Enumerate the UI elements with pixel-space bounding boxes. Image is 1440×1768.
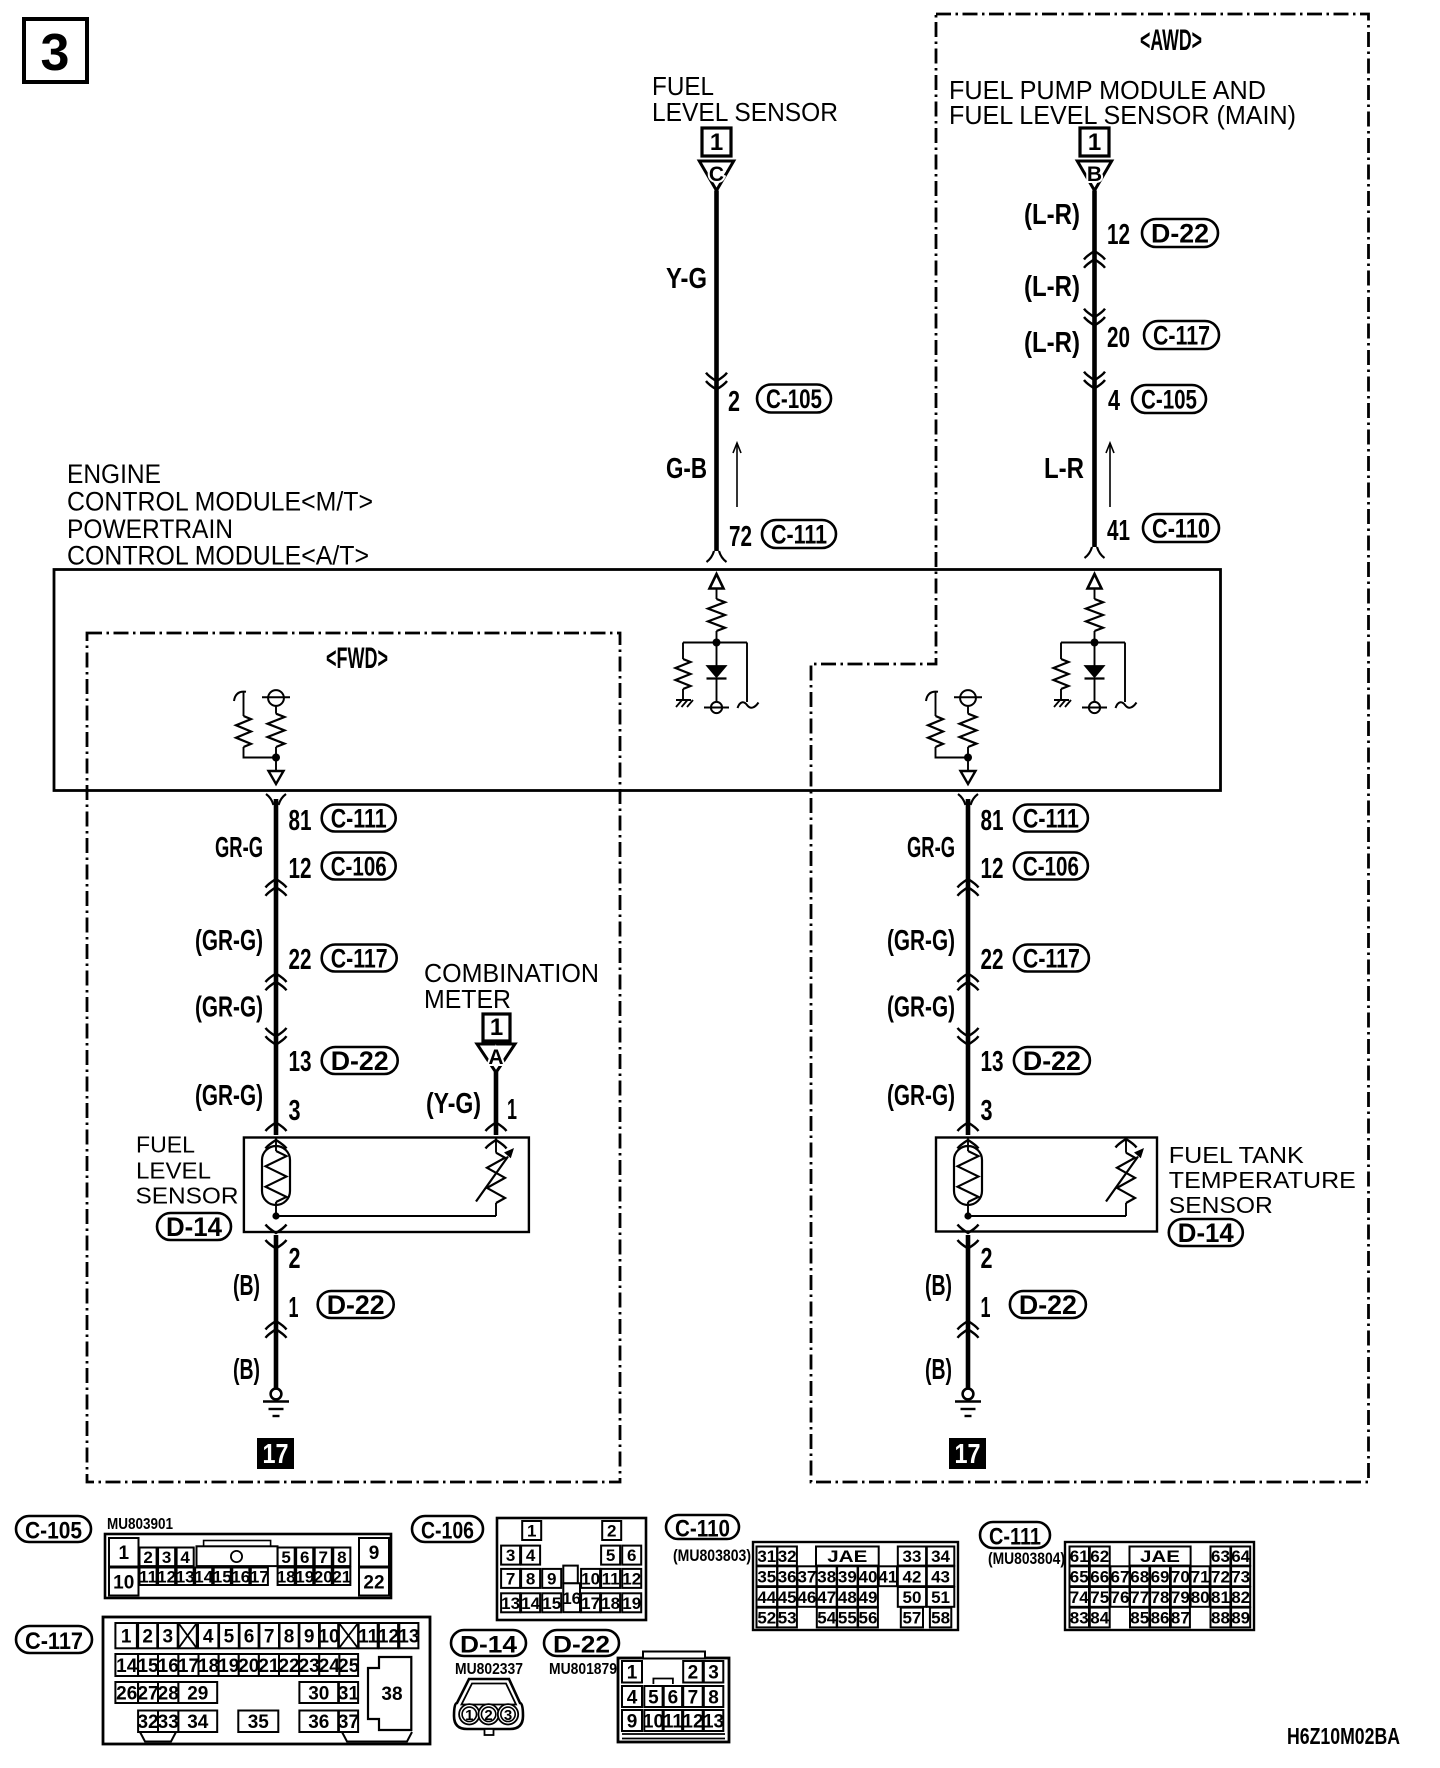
svg-text:3: 3 [708, 1663, 719, 1684]
svg-text:14: 14 [116, 1656, 138, 1677]
svg-text:52: 52 [757, 1609, 776, 1628]
svg-text:(MU803804): (MU803804) [988, 1549, 1065, 1568]
pin 12 cell [158, 1568, 175, 1586]
pull-up resistor [708, 599, 725, 631]
pin 8 cell [704, 1686, 724, 1707]
pin 9 cell [299, 1623, 319, 1648]
svg-text:D-22: D-22 [1023, 1046, 1081, 1076]
svg-text:3: 3 [162, 1548, 171, 1567]
svg-text:FUEL LEVEL SENSOR (MAIN): FUEL LEVEL SENSOR (MAIN) [949, 100, 1296, 130]
svg-text:11: 11 [602, 1570, 620, 1589]
pin 38 cell [817, 1566, 837, 1586]
pin 5 cell [644, 1686, 662, 1707]
svg-text:20: 20 [314, 1567, 333, 1586]
svg-text:9: 9 [547, 1570, 556, 1589]
connector C-105 pinout [16, 1516, 91, 1542]
pin 19 cell [219, 1654, 239, 1676]
svg-text:5: 5 [224, 1626, 235, 1647]
pin 19 cell [296, 1568, 313, 1586]
wire [967, 706, 969, 714]
variable resistor [1117, 1153, 1135, 1203]
pin 2 cell [140, 1548, 157, 1567]
svg-text:D-14: D-14 [1178, 1218, 1234, 1248]
connector pass chevrons [266, 1321, 287, 1330]
pin 21 cell [259, 1654, 279, 1676]
resistor to ground [676, 659, 691, 689]
svg-text:31: 31 [338, 1683, 360, 1704]
svg-text:7: 7 [264, 1626, 275, 1647]
pin 14 cell [521, 1593, 540, 1612]
connector pass chevrons up [1084, 251, 1105, 260]
pin 49 cell [858, 1587, 878, 1607]
connector pass chevrons down [1084, 380, 1105, 389]
svg-text:82: 82 [1231, 1588, 1250, 1607]
pin 67 cell [1110, 1566, 1129, 1586]
pin 10 cell [581, 1569, 600, 1588]
pin 34 cell [927, 1547, 955, 1566]
wire [275, 706, 277, 714]
svg-text:46: 46 [797, 1588, 816, 1607]
svg-text:D-14: D-14 [460, 1631, 518, 1658]
svg-text:1: 1 [121, 1626, 132, 1647]
pin 33 cell [898, 1547, 926, 1566]
pin 50 cell [898, 1587, 926, 1607]
svg-text:12: 12 [1107, 219, 1130, 251]
svg-text:19: 19 [622, 1594, 641, 1613]
pin 65 cell [1070, 1566, 1090, 1586]
svg-text:32: 32 [778, 1547, 797, 1566]
pin 7 cell [315, 1548, 332, 1567]
pin 42 cell [898, 1566, 926, 1586]
resistor [236, 716, 251, 747]
pin 18 cell [601, 1593, 620, 1612]
pin 11 cell [601, 1569, 620, 1588]
svg-text:GR-G: GR-G [215, 832, 263, 864]
pin 84 cell [1090, 1608, 1110, 1628]
svg-text:12: 12 [378, 1626, 399, 1647]
pin 10 cell [644, 1710, 662, 1731]
pin 2 cell [602, 1521, 621, 1540]
svg-text:40: 40 [859, 1567, 878, 1586]
AWD region dash-dot boundary [811, 14, 1369, 1482]
svg-text:66: 66 [1090, 1567, 1109, 1586]
pin 2 cell [138, 1623, 157, 1648]
wire [1060, 643, 1062, 660]
coil hook [926, 692, 938, 701]
pin 29 cell [178, 1682, 217, 1703]
connector ref C-105 [1132, 385, 1206, 413]
contact circle [711, 702, 722, 713]
pin 46 cell [797, 1587, 816, 1607]
wire [1094, 631, 1096, 643]
svg-text:C: C [709, 163, 724, 186]
connector ref C-117 [1144, 321, 1219, 349]
pin 33 cell [158, 1711, 178, 1733]
svg-text:LEVEL SENSOR: LEVEL SENSOR [652, 97, 838, 127]
svg-text:13: 13 [981, 1046, 1004, 1078]
connector 1 box (fuel pump module) [1080, 128, 1109, 156]
svg-text:2: 2 [289, 1243, 301, 1275]
svg-text:8: 8 [526, 1570, 535, 1589]
pin 24 cell [319, 1654, 339, 1676]
svg-text:10: 10 [113, 1572, 134, 1593]
ground ref 17 [949, 1438, 986, 1469]
svg-text:84: 84 [1090, 1609, 1109, 1628]
svg-text:22: 22 [278, 1656, 299, 1677]
svg-text:6: 6 [668, 1687, 679, 1708]
connector D-14 pinout [451, 1630, 526, 1656]
svg-text:LEVEL: LEVEL [136, 1158, 211, 1184]
svg-text:1: 1 [627, 1663, 638, 1684]
connector triangle C [699, 161, 733, 191]
wire [746, 643, 748, 703]
wire [1060, 689, 1062, 700]
svg-text:C-117: C-117 [1153, 320, 1210, 350]
svg-text:(GR-G): (GR-G) [195, 992, 263, 1024]
connector ref D-22 [322, 1047, 398, 1074]
svg-text:30: 30 [308, 1683, 329, 1704]
pin 32 cell [777, 1547, 797, 1566]
svg-text:25: 25 [338, 1656, 360, 1677]
svg-text:3: 3 [289, 1095, 301, 1127]
pin 28 cell [158, 1682, 178, 1703]
svg-text:7: 7 [319, 1548, 328, 1567]
pin 30 cell [299, 1682, 338, 1703]
svg-text:38: 38 [381, 1684, 402, 1705]
wire flare below ECM [958, 794, 966, 805]
pin 1 cell [115, 1623, 136, 1648]
variable resistor [487, 1153, 505, 1203]
svg-text:33: 33 [902, 1547, 921, 1566]
svg-text:MU801879: MU801879 [549, 1661, 617, 1678]
svg-text:37: 37 [797, 1567, 816, 1586]
svg-text:42: 42 [902, 1567, 921, 1586]
svg-text:41: 41 [1107, 515, 1130, 547]
svg-text:6: 6 [244, 1626, 255, 1647]
svg-text:1: 1 [465, 1707, 473, 1724]
svg-text:61: 61 [1070, 1547, 1089, 1566]
svg-text:(L-R): (L-R) [1024, 327, 1080, 359]
svg-text:(GR-G): (GR-G) [195, 925, 263, 957]
wire [275, 747, 277, 771]
wire (Y-G) to combination meter pin 1 [494, 1072, 499, 1135]
pin 43 cell [927, 1566, 955, 1586]
svg-text:57: 57 [902, 1609, 921, 1628]
pin 53 cell [777, 1608, 797, 1628]
svg-text:81: 81 [289, 805, 312, 837]
svg-text:3: 3 [41, 24, 70, 82]
pin 35 cell [238, 1711, 278, 1733]
pin 3 cell [501, 1546, 520, 1565]
svg-text:1: 1 [527, 1522, 536, 1541]
connector ref C-111 [1014, 805, 1088, 832]
svg-text:12: 12 [981, 853, 1004, 885]
chassis ground [1054, 699, 1069, 701]
svg-text:11: 11 [358, 1626, 379, 1647]
junction node [964, 754, 972, 762]
svg-text:16: 16 [562, 1589, 581, 1608]
svg-text:12: 12 [289, 853, 312, 885]
pin 18 cell [278, 1568, 295, 1586]
wire GR-G (ECM to sensor) [966, 799, 971, 1135]
pin 13 cell [704, 1710, 724, 1731]
svg-text:9: 9 [369, 1543, 380, 1564]
svg-text:27: 27 [137, 1683, 158, 1704]
wire [1094, 679, 1096, 702]
svg-text:JAE: JAE [827, 1547, 867, 1566]
svg-text:(GR-G): (GR-G) [887, 992, 955, 1024]
svg-text:TEMPERATURE: TEMPERATURE [1169, 1167, 1356, 1193]
pin 13 cell [399, 1623, 418, 1648]
connector pass C-105 pin2 chevrons [706, 381, 727, 390]
pin 17 cell [581, 1593, 600, 1612]
pin 40 cell [858, 1566, 878, 1586]
ground wire (B) [274, 1235, 279, 1390]
pin 58 cell [930, 1608, 951, 1628]
pin 12 cell [622, 1569, 641, 1588]
svg-text:D-22: D-22 [553, 1631, 610, 1658]
svg-text:(L-R): (L-R) [1024, 271, 1080, 303]
connector C-111 pinout [980, 1522, 1050, 1548]
connector ref C-105 [757, 385, 831, 413]
svg-text:(L-R): (L-R) [1024, 199, 1080, 231]
svg-text:C-106: C-106 [331, 851, 387, 881]
svg-text:4: 4 [203, 1626, 214, 1647]
svg-text:22: 22 [981, 944, 1004, 976]
svg-text:51: 51 [931, 1588, 950, 1607]
svg-text:<AWD>: <AWD> [1140, 24, 1202, 57]
pin 35 cell [757, 1566, 778, 1586]
svg-text:C-117: C-117 [331, 943, 388, 973]
svg-text:MU802337: MU802337 [455, 1661, 523, 1678]
contact circle [268, 690, 284, 706]
svg-text:6: 6 [627, 1546, 636, 1565]
pin 26 cell [115, 1682, 138, 1703]
pin 63 cell [1211, 1547, 1231, 1566]
pin 7 cell [259, 1623, 279, 1648]
svg-text:88: 88 [1211, 1609, 1230, 1628]
pin 73 cell [1231, 1566, 1250, 1586]
svg-text:5: 5 [648, 1687, 659, 1708]
svg-text:65: 65 [1070, 1567, 1089, 1586]
svg-text:(B): (B) [233, 1270, 260, 1302]
svg-text:56: 56 [859, 1609, 878, 1628]
svg-text:15: 15 [542, 1594, 561, 1613]
sensor resistor stadium [954, 1146, 982, 1205]
svg-text:7: 7 [506, 1570, 515, 1589]
svg-text:16: 16 [231, 1567, 250, 1586]
svg-text:36: 36 [778, 1567, 797, 1586]
svg-text:GR-G: GR-G [907, 832, 955, 864]
pin 9 cell [622, 1710, 642, 1731]
pin 4 cell [521, 1546, 540, 1565]
svg-text:14: 14 [194, 1567, 213, 1586]
pin 55 cell [837, 1608, 858, 1628]
pin 80 cell [1191, 1587, 1210, 1607]
pin 22 cell [359, 1568, 389, 1596]
zener diode [707, 666, 727, 678]
pin 70 cell [1171, 1566, 1190, 1586]
pin 4 cell [198, 1623, 218, 1648]
connector pass chevrons [266, 1036, 287, 1045]
signal direction arrow [1109, 443, 1111, 507]
pin 48 cell [837, 1587, 858, 1607]
svg-text:81: 81 [981, 805, 1004, 837]
wire L-R (fuel pump module to ECM pin 41) [1092, 191, 1097, 548]
svg-text:(MU803803): (MU803803) [673, 1546, 751, 1565]
pin 3 cell [158, 1623, 178, 1648]
svg-text:15: 15 [137, 1656, 159, 1677]
chevrons at box bottom edge [958, 1225, 979, 1234]
wire [1124, 643, 1126, 703]
svg-text:3: 3 [981, 1095, 993, 1127]
svg-text:20: 20 [1107, 322, 1130, 354]
pin 2 cell [683, 1661, 703, 1683]
svg-text:H6Z10M02BA: H6Z10M02BA [1287, 1723, 1400, 1749]
signal direction arrow [736, 443, 738, 507]
pin 82 cell [1231, 1587, 1250, 1607]
svg-text:C-111: C-111 [771, 519, 827, 549]
svg-text:2: 2 [484, 1707, 492, 1724]
svg-text:34: 34 [187, 1712, 209, 1733]
svg-text:2: 2 [607, 1522, 616, 1541]
svg-text:74: 74 [1070, 1588, 1089, 1607]
chevron at sensor box edge [958, 1123, 979, 1132]
pin 15 cell [138, 1654, 158, 1676]
contact circle [960, 690, 976, 706]
coil tail [738, 702, 759, 708]
wire [682, 689, 684, 700]
svg-text:(Y-G): (Y-G) [426, 1088, 481, 1120]
svg-text:C-105: C-105 [25, 1517, 82, 1544]
svg-text:38: 38 [817, 1567, 836, 1586]
svg-text:83: 83 [1070, 1609, 1089, 1628]
svg-text:28: 28 [158, 1683, 179, 1704]
svg-text:18: 18 [198, 1656, 219, 1677]
connector ref C-111 [762, 520, 836, 548]
svg-text:12: 12 [157, 1567, 176, 1586]
pin 9 cell [542, 1569, 561, 1588]
connector C-106 pinout [412, 1516, 483, 1542]
pin 62 cell [1090, 1547, 1110, 1566]
svg-text:20: 20 [238, 1656, 259, 1677]
pin 19 cell [622, 1593, 641, 1612]
svg-text:1: 1 [490, 1014, 503, 1041]
pin 41 cell [879, 1566, 897, 1586]
connector ref D-14 [157, 1213, 231, 1240]
svg-text:4: 4 [180, 1548, 190, 1567]
svg-text:G-B: G-B [666, 453, 707, 485]
ground ref 17 [257, 1438, 294, 1469]
svg-text:64: 64 [1231, 1547, 1250, 1566]
pin 61 cell [1070, 1547, 1090, 1566]
chassis ground [676, 699, 691, 701]
svg-text:18: 18 [277, 1567, 296, 1586]
svg-text:C-111: C-111 [331, 803, 387, 833]
svg-text:11: 11 [139, 1567, 157, 1586]
svg-text:13: 13 [398, 1626, 419, 1647]
pin 13 cell [177, 1568, 194, 1586]
pin 14 cell [195, 1568, 212, 1586]
svg-text:CONTROL MODULE<A/T>: CONTROL MODULE<A/T> [67, 541, 369, 571]
svg-text:10: 10 [318, 1626, 339, 1647]
svg-text:1: 1 [289, 1292, 299, 1324]
pin 7 cell [683, 1686, 703, 1707]
pin 37 cell [797, 1566, 816, 1586]
svg-text:3: 3 [163, 1626, 174, 1647]
pin 20 cell [239, 1654, 259, 1676]
pin 6 cell [664, 1686, 682, 1707]
svg-text:10: 10 [581, 1570, 600, 1589]
pin 6 cell [622, 1546, 641, 1565]
connector D-22 pinout [544, 1630, 619, 1656]
connector pass chevrons [958, 1036, 979, 1045]
junction node [272, 754, 280, 762]
connector pass chevrons down [1084, 317, 1105, 326]
svg-text:11: 11 [663, 1711, 684, 1732]
svg-text:17: 17 [263, 1438, 289, 1469]
wire [936, 747, 969, 758]
svg-text:B: B [1087, 163, 1102, 186]
pin 9 cell [359, 1538, 389, 1567]
wire [243, 692, 245, 716]
pin 4 cell [622, 1686, 642, 1707]
svg-text:50: 50 [902, 1588, 921, 1607]
pin 5 cell [219, 1623, 239, 1648]
svg-text:C-105: C-105 [1141, 384, 1197, 414]
svg-text:(B): (B) [233, 1354, 260, 1386]
svg-text:4: 4 [526, 1546, 536, 1565]
pin 1 cell [109, 1538, 139, 1567]
pin 16 cell [563, 1583, 580, 1612]
svg-text:(B): (B) [925, 1354, 952, 1386]
svg-text:<FWD>: <FWD> [326, 642, 388, 675]
pin 87 cell [1171, 1608, 1190, 1628]
pin 14 cell [115, 1654, 138, 1676]
connector ref C-110 [1143, 514, 1219, 542]
svg-text:18: 18 [601, 1594, 620, 1613]
svg-text:4: 4 [627, 1687, 638, 1708]
pin 7 cell [501, 1569, 520, 1588]
pin 45 cell [777, 1587, 797, 1607]
svg-text:17: 17 [581, 1594, 600, 1613]
pin 10 cell [109, 1568, 139, 1596]
pin 8 cell [521, 1569, 540, 1588]
wire to gauge [276, 1215, 496, 1217]
wire [716, 679, 718, 702]
svg-text:SENSOR: SENSOR [1169, 1192, 1273, 1218]
svg-text:77: 77 [1130, 1588, 1149, 1607]
pin 75 cell [1090, 1587, 1110, 1607]
junction node [964, 1212, 971, 1219]
svg-text:(GR-G): (GR-G) [887, 925, 955, 957]
wire [716, 643, 718, 666]
chevron at sensor box edge [266, 1123, 287, 1132]
svg-text:72: 72 [729, 521, 752, 553]
pin 72 cell [1211, 1566, 1231, 1586]
connector triangle A [477, 1044, 515, 1073]
svg-text:15: 15 [213, 1567, 232, 1586]
svg-text:24: 24 [319, 1656, 341, 1677]
svg-text:D-22: D-22 [1151, 218, 1209, 248]
svg-text:1: 1 [118, 1543, 129, 1564]
svg-text:POWERTRAIN: POWERTRAIN [67, 514, 233, 544]
pin 6 cell [240, 1623, 259, 1648]
pin 83 cell [1070, 1608, 1090, 1628]
svg-text:C-110: C-110 [675, 1515, 730, 1542]
pin 89 cell [1231, 1608, 1250, 1628]
coil tail [1116, 702, 1137, 708]
